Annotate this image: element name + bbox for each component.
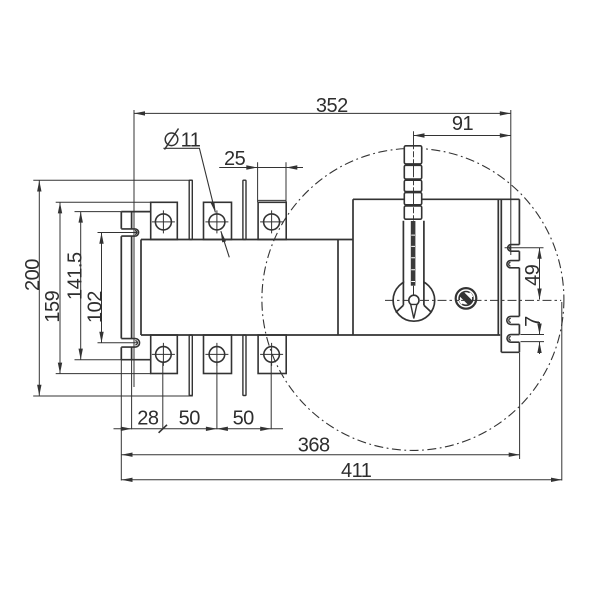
svg-text:368: 368 — [298, 435, 330, 457]
svg-text:159: 159 — [42, 290, 64, 322]
svg-text:200: 200 — [22, 259, 44, 291]
svg-text:11: 11 — [181, 129, 201, 151]
svg-text:49: 49 — [522, 264, 544, 286]
svg-text:7: 7 — [522, 316, 544, 327]
svg-text:102: 102 — [85, 291, 107, 323]
svg-text:50: 50 — [233, 408, 255, 430]
svg-text:25: 25 — [224, 148, 246, 170]
svg-text:91: 91 — [452, 113, 474, 135]
svg-text:50: 50 — [179, 408, 201, 430]
svg-text:411: 411 — [341, 460, 372, 482]
svg-text:141.5: 141.5 — [65, 252, 87, 300]
svg-text:28: 28 — [137, 408, 159, 430]
svg-text:352: 352 — [316, 95, 348, 117]
